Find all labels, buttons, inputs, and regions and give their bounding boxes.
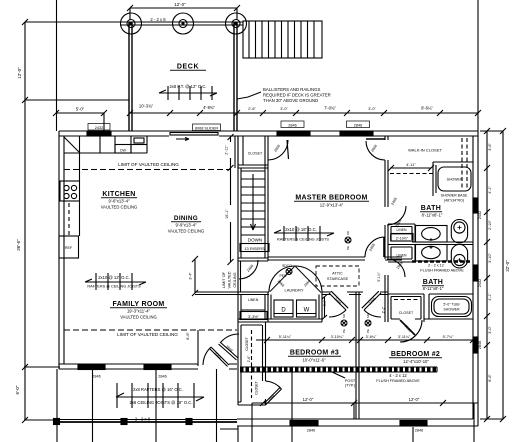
svg-text:2x10 @ 16" O.C.: 2x10 @ 16" O.C. [285, 227, 317, 232]
svg-text:PE: PE [342, 329, 346, 333]
left counter edge [79, 153, 81, 236]
bedroom3 closet rod dashed [251, 330, 253, 398]
counter divisions [80, 136, 148, 153]
svg-text:2'-1": 2'-1" [382, 306, 386, 314]
right wall window 2432 lower [473, 265, 478, 281]
porch posts squares [54, 419, 60, 425]
washer dryer boxes [274, 300, 293, 317]
wall between dining and stair closet [235, 136, 238, 168]
main top dim row y112 [56, 112, 478, 114]
limit of vaulted ceiling dashed lower [64, 329, 237, 331]
svg-text:FAMILY ROOM: FAMILY ROOM [113, 301, 165, 308]
bedroom3 door angled 2468 [329, 291, 348, 310]
right extension y419 [480, 418, 503, 420]
slider arrow [176, 138, 189, 141]
svg-text:19'-3"x11'-4": 19'-3"x11'-4" [127, 309, 151, 314]
shower enclosure walls [433, 162, 473, 196]
stair closet box [238, 136, 268, 168]
svg-text:12'-0": 12'-0" [17, 67, 22, 79]
svg-text:DINING: DINING [174, 215, 198, 222]
svg-text:13 RISERS: 13 RISERS [244, 246, 265, 251]
smoke detector bedroom2 [365, 320, 371, 326]
svg-text:BALLISTERS AND RAILINGS: BALLISTERS AND RAILINGS [263, 87, 320, 92]
svg-text:W: W [304, 308, 310, 314]
ballisters leader line [237, 92, 261, 99]
svg-text:3'-11¼": 3'-11¼" [398, 335, 411, 339]
exterior stairs [243, 21, 322, 58]
bedroom divider wall [356, 292, 359, 419]
svg-text:2'-11": 2'-11" [225, 145, 229, 155]
svg-text:POST: POST [345, 379, 356, 383]
svg-text:STAIRCASE: STAIRCASE [327, 277, 349, 281]
closet rod dashed vertical [461, 138, 463, 188]
svg-text:FLUSH FRAMED ABOVE: FLUSH FRAMED ABOVE [420, 269, 464, 273]
right wall window 2432 upper [473, 198, 478, 213]
hall west wall [238, 261, 241, 292]
svg-text:CLOSET: CLOSET [399, 311, 414, 315]
porch rafter symbol [116, 396, 204, 398]
svg-text:5'-0": 5'-0" [76, 107, 85, 112]
svg-text:BEDROOM #3: BEDROOM #3 [290, 350, 339, 357]
13 risers box [240, 244, 269, 252]
svg-text:BATH: BATH [421, 205, 442, 212]
svg-text:2846: 2846 [158, 375, 166, 379]
svg-text:12'-9"x13'-4": 12'-9"x13'-4" [320, 203, 344, 208]
deck post circle 3 [226, 13, 247, 34]
svg-text:2x8 CEILING JOISTS @ 16" O.C.: 2x8 CEILING JOISTS @ 16" O.C. [130, 400, 193, 405]
shower base [438, 167, 471, 191]
svg-text:8'-6": 8'-6" [488, 374, 492, 382]
bedroom3 closet door 2868 [219, 342, 239, 360]
svg-text:DOWN: DOWN [248, 238, 262, 243]
svg-text:5'-11¼": 5'-11¼" [279, 335, 292, 339]
svg-text:3'-10": 3'-10" [488, 253, 492, 263]
svg-text:D: D [281, 308, 286, 314]
svg-text:3'-3½": 3'-3½" [248, 315, 259, 319]
slider door 8068 in top wall [170, 133, 218, 136]
extension line y420 [24, 419, 60, 421]
ticks on top dim row [53, 110, 481, 116]
counter corner diagonal [64, 137, 79, 152]
svg-text:KITCHEN: KITCHEN [102, 191, 135, 198]
lower bath door 2068 [387, 259, 405, 277]
svg-text:2846: 2846 [415, 429, 423, 433]
bedroom2 closet [388, 294, 429, 322]
svg-text:2846: 2846 [92, 375, 100, 379]
svg-text:3'-10¼": 3'-10¼" [331, 335, 344, 339]
top dimension row [53, 0, 481, 131]
svg-text:2x8 RAFTERS @ 16" O.C.: 2x8 RAFTERS @ 16" O.C. [133, 387, 183, 392]
extension lines below bottom wall [237, 426, 239, 442]
svg-text:SHOWER BASE: SHOWER BASE [441, 194, 468, 198]
svg-text:CEILING: CEILING [233, 272, 237, 287]
svg-text:PED: PED [280, 274, 288, 278]
svg-text:8'-11"x8'-1": 8'-11"x8'-1" [422, 213, 443, 218]
lower vanity [416, 245, 448, 262]
svg-text:2432: 2432 [478, 211, 482, 219]
svg-text:2'-6": 2'-6" [247, 355, 251, 363]
window 2846 top wall right [340, 131, 373, 136]
laundry room walls [238, 292, 322, 322]
walk-in closet door arc [366, 141, 385, 160]
kitchen sink box [131, 144, 147, 146]
svg-text:2846: 2846 [478, 341, 482, 349]
deck top dim line 12'-0" [130, 7, 237, 9]
walk-in closet shelf dim 4'-11" [388, 165, 434, 171]
lower toilet [451, 245, 467, 269]
svg-text:2846: 2846 [288, 124, 296, 128]
svg-text:SHOWER: SHOWER [443, 308, 460, 312]
svg-text:3'-0": 3'-0" [280, 107, 288, 111]
bedroom3 closet lower door 2868 [264, 388, 282, 406]
lower linen box [388, 245, 415, 263]
svg-text:CLOSET: CLOSET [248, 152, 263, 156]
svg-text:LINEN: LINEN [397, 228, 408, 232]
svg-text:RAFTERS & CEILING JOISTS: RAFTERS & CEILING JOISTS [277, 238, 329, 242]
svg-text:3'-0": 3'-0" [323, 299, 327, 307]
svg-text:PE: PE [346, 246, 350, 250]
svg-text:CLOSET: CLOSET [255, 381, 259, 395]
refrigerator REF [59, 236, 79, 258]
left exterior wall [59, 131, 64, 369]
porch column lines to edge [57, 369, 217, 442]
svg-text:2x10 @ 12" O.C.: 2x10 @ 12" O.C. [98, 275, 130, 280]
svg-text:5'-1¼": 5'-1¼" [377, 271, 381, 281]
kitchen counter front edge [64, 152, 147, 154]
hall door at stair bottom 2468 [239, 260, 258, 279]
svg-text:WALK-IN CLOSET: WALK-IN CLOSET [408, 148, 442, 153]
bedroom south windows 2846 [290, 421, 318, 427]
tub enclosure [429, 294, 473, 319]
smoke detector hall [286, 269, 292, 275]
tub 5'-0" [432, 297, 472, 317]
hall south wall segments [238, 292, 388, 295]
bedroom dim ticks [264, 337, 476, 343]
hall north wall east segment [385, 257, 402, 260]
dining side vertical dim line [228, 134, 234, 265]
svg-text:9'-6¼": 9'-6¼" [421, 106, 433, 111]
svg-text:2x8 P.T. @ 12" O.C.: 2x8 P.T. @ 12" O.C. [169, 84, 206, 89]
right dimension column [480, 128, 506, 422]
smoke detector bedroom3 [341, 320, 347, 326]
svg-text:10'-3¾": 10'-3¾" [139, 104, 154, 109]
laundry double door arcs 2468 [269, 266, 295, 292]
bedroom dim line [256, 339, 478, 341]
linen closet hall [238, 292, 268, 322]
svg-text:9'-9"x13'-4": 9'-9"x13'-4" [175, 223, 197, 228]
svg-text:3'-0": 3'-0" [368, 107, 376, 111]
svg-text:5'-7¼": 5'-7¼" [443, 335, 454, 339]
svg-text:RAFTERS @ CEILING JOISTS: RAFTERS @ CEILING JOISTS [87, 285, 141, 289]
svg-text:LINEN: LINEN [397, 254, 408, 258]
svg-text:BEDROOM #2: BEDROOM #2 [391, 351, 440, 358]
long extension x478 from top edge [477, 0, 479, 131]
left overall dimension line [22, 19, 129, 423]
svg-text:2 - 2 x 8: 2 - 2 x 8 [150, 17, 166, 22]
right extension y131 [480, 130, 503, 132]
svg-text:VAULTED CEILING: VAULTED CEILING [168, 229, 205, 234]
bedroom south wall [237, 419, 478, 426]
window label boxes [88, 121, 413, 241]
extension line y100 [25, 99, 129, 101]
svg-text:4 - 2 x 12: 4 - 2 x 12 [389, 373, 407, 378]
svg-text:4'-1": 4'-1" [488, 293, 492, 301]
stair treads [241, 171, 265, 235]
svg-text:12'-4"x10'-10": 12'-4"x10'-10" [403, 359, 429, 364]
svg-text:(48"x34"RO): (48"x34"RO) [444, 199, 464, 203]
hall south wall west segment [195, 292, 238, 295]
svg-text:2432: 2432 [95, 126, 103, 130]
svg-text:VAULTED CEILING: VAULTED CEILING [101, 205, 138, 210]
hall width dim 3'-4" [192, 256, 198, 296]
svg-text:9'-6"x13'-4": 9'-6"x13'-4" [108, 199, 130, 204]
svg-text:LIMIT OF VAULTED CEILING: LIMIT OF VAULTED CEILING [118, 162, 179, 167]
svg-text:8068 SLIDER: 8068 SLIDER [195, 127, 218, 131]
stairs bottom wall [238, 258, 268, 261]
svg-text:PE: PE [366, 329, 370, 333]
svg-text:SDCO: SDCO [282, 264, 292, 268]
bottom dim line 12'-0" x2 [252, 402, 478, 404]
smoke detector master [345, 237, 351, 243]
window 2432 top wall [87, 131, 111, 136]
window 2846 top wall left [277, 131, 310, 136]
svg-text:THAN 30" ABOVE GROUND: THAN 30" ABOVE GROUND [263, 98, 318, 103]
svg-text:BATH: BATH [423, 279, 444, 286]
flush framed beam hatched strip [240, 367, 437, 372]
limit of vaulted ceiling dashed upper [64, 169, 231, 171]
mid wall between baths [412, 242, 473, 245]
svg-text:12'-0": 12'-0" [409, 397, 420, 402]
deck joist symbol [159, 92, 217, 94]
svg-text:8'-11"x8'-1": 8'-11"x8'-1" [423, 286, 444, 291]
bedroom2 closet door 2068 [400, 320, 422, 342]
inner right dim line [486, 131, 488, 419]
extension x56 long from top edge [56, 0, 58, 131]
svg-text:6'-0": 6'-0" [15, 385, 20, 394]
master bedroom south wall [268, 257, 365, 260]
svg-text:12'-0": 12'-0" [303, 397, 314, 402]
svg-text:LINEN: LINEN [248, 298, 259, 302]
deck post circle 2 [173, 13, 194, 34]
top exterior wall [59, 131, 478, 136]
svg-text:4'-1": 4'-1" [488, 186, 492, 194]
svg-text:4'-8¾": 4'-8¾" [203, 105, 215, 110]
upper linen box [388, 224, 415, 242]
svg-text:4'-11": 4'-11" [406, 163, 416, 167]
svg-text:2846: 2846 [307, 429, 315, 433]
svg-text:2 - 2 x 8: 2 - 2 x 8 [135, 417, 151, 422]
stairwell walls [238, 136, 268, 261]
outer right dim line 32'-0" [502, 131, 504, 419]
tick marks left [22, 19, 28, 423]
bedroom3 closet walls [238, 322, 266, 405]
svg-text:2846: 2846 [354, 124, 362, 128]
master rafter symbol [274, 232, 334, 234]
svg-text:LIMIT OF VAULTED CEILING: LIMIT OF VAULTED CEILING [117, 332, 178, 337]
svg-text:VAULTED: VAULTED [228, 271, 232, 288]
svg-text:REF: REF [65, 246, 73, 250]
svg-text:(TYP.): (TYP.) [345, 384, 356, 388]
svg-text:2'-10": 2'-10" [488, 220, 492, 230]
deck post circle 1 [121, 13, 142, 34]
svg-text:32'-0": 32'-0" [505, 260, 510, 272]
master right wall / bath column left wall [385, 136, 388, 322]
upper toilet [451, 220, 467, 244]
svg-text:2'-10½": 2'-10½" [396, 237, 409, 241]
upper bath door 2068 [387, 206, 406, 225]
svg-text:FLUSH FRAMED ABOVE: FLUSH FRAMED ABOVE [376, 379, 420, 383]
laundry side mini dim [322, 295, 327, 320]
beam end verticals [436, 367, 438, 372]
svg-text:REQUIRED IF DECK IS GREATER: REQUIRED IF DECK IS GREATER [263, 93, 331, 98]
svg-text:12'-0": 12'-0" [174, 2, 186, 7]
svg-text:3'-6": 3'-6" [488, 143, 492, 151]
family room south wall [59, 364, 237, 369]
post leader [332, 372, 345, 378]
extension line y367 [24, 366, 60, 368]
family room south windows 2846 [78, 365, 105, 370]
bottom dimension line [220, 372, 478, 442]
right exterior wall [473, 131, 478, 426]
svg-text:LAUNDRY: LAUNDRY [284, 288, 303, 293]
svg-text:2'-6": 2'-6" [248, 107, 256, 111]
svg-text:DW: DW [120, 149, 126, 153]
attic staircase dashed box [316, 266, 359, 286]
svg-text:2432: 2432 [478, 279, 482, 287]
short horiz at left of bottom [220, 428, 238, 430]
svg-text:ATTIC: ATTIC [332, 272, 343, 276]
svg-text:3'-0": 3'-0" [488, 326, 492, 334]
flush beam dashed between baths [412, 260, 470, 263]
svg-text:SHOWER: SHOWER [447, 178, 463, 182]
svg-text:7'-0¾": 7'-0¾" [324, 106, 336, 111]
deck right wall [234, 22, 237, 131]
svg-text:3'-6¼": 3'-6¼" [366, 335, 377, 339]
stair direction arrow [251, 174, 256, 230]
svg-text:8'-6": 8'-6" [186, 332, 190, 340]
master bedroom entry door arc 2468 [365, 237, 385, 257]
deck top rail beam [120, 22, 243, 25]
bedroom2 door angled 2468 [362, 291, 381, 310]
right wall window 2846 bedroom2 [473, 337, 478, 353]
extension line top y22 [25, 21, 129, 23]
svg-text:CLOSET: CLOSET [245, 337, 249, 351]
alcove jamb line [197, 330, 199, 366]
deck left wall [129, 22, 132, 131]
porch front beam [57, 419, 237, 421]
svg-text:MASTER BEDROOM: MASTER BEDROOM [295, 195, 367, 202]
range/stove [60, 181, 80, 201]
upper vanity [416, 226, 448, 243]
svg-text:5'-0" TUB/: 5'-0" TUB/ [443, 303, 459, 307]
closet shelf dashed [390, 173, 433, 175]
extension x104 [103, 113, 105, 131]
svg-text:VAULTED CEILING: VAULTED CEILING [120, 315, 157, 320]
dim line left vertical [24, 22, 26, 420]
ticks inner right [484, 128, 490, 422]
family room exterior door 3068 [210, 347, 230, 367]
family room rafter symbol [85, 281, 146, 283]
svg-text:DECK: DECK [177, 64, 199, 71]
svg-text:36'-6": 36'-6" [16, 239, 21, 251]
svg-text:LIMIT OF: LIMIT OF [222, 271, 226, 288]
dishwasher DW [115, 145, 131, 154]
closet door arc at stair top [268, 140, 288, 160]
svg-text:2 - 2 x 12: 2 - 2 x 12 [428, 264, 444, 268]
upper cabinet dashed line [68, 203, 70, 236]
svg-text:16'-1": 16'-1" [225, 209, 229, 219]
svg-text:3'-4": 3'-4" [189, 272, 193, 280]
svg-text:10'-0"x11'-6": 10'-0"x11'-6" [302, 358, 326, 363]
